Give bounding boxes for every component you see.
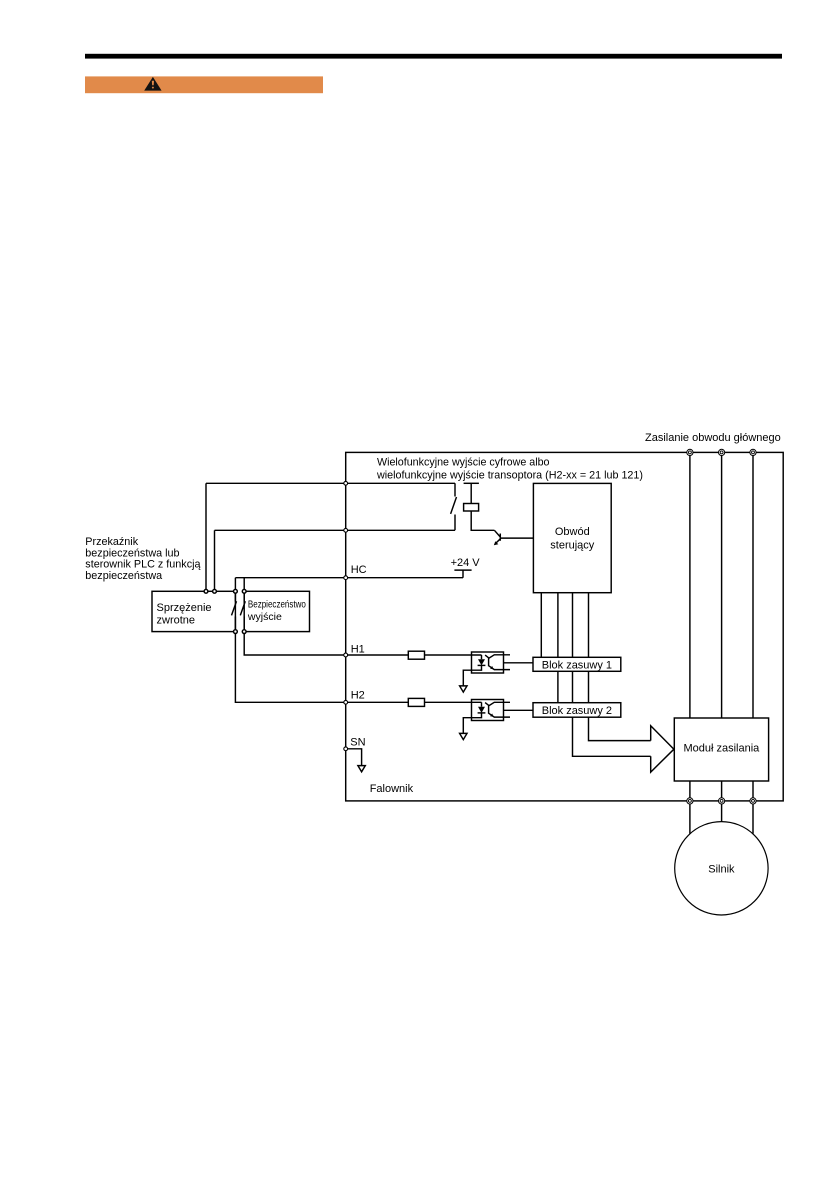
junction circle contact B top xyxy=(242,589,246,593)
feedback box (Sprzezenie zwrotne) xyxy=(152,591,235,631)
relay coil top bar xyxy=(464,482,479,484)
wire: R1 to optocoupler U1 xyxy=(424,654,482,656)
U2 emitter arrowhead xyxy=(490,714,493,717)
wire: contact 2 to H1 xyxy=(244,632,346,655)
terminal circle H2 xyxy=(344,700,348,704)
U1 LED anode lead xyxy=(481,655,483,659)
wire: feedback line 1 horizontal to terminal T1 xyxy=(206,482,455,484)
transistor Q1 xyxy=(494,530,500,543)
junction circle contact A bottom xyxy=(234,630,238,634)
U1 emitter arrowhead xyxy=(490,666,493,669)
header rule xyxy=(85,54,782,59)
power module box (Modul zasilania) xyxy=(674,718,768,781)
wire: safety contact feed stub B xyxy=(243,578,245,592)
terminal circle T1 xyxy=(344,481,348,750)
relay contact switch xyxy=(451,483,457,530)
svg-text:bezpieczeństwa: bezpieczeństwa xyxy=(85,570,162,582)
svg-text:Silnik: Silnik xyxy=(708,863,735,875)
svg-text:Sprzężenie: Sprzężenie xyxy=(157,602,212,614)
wire: HC to safety relay xyxy=(235,577,345,579)
output terminal W bottom xyxy=(750,798,756,804)
U1 LED cathode lead to ground xyxy=(463,665,481,686)
safety output box (Bezpieczenstwo wyjscie) xyxy=(244,591,309,631)
junction circle contact A top xyxy=(234,589,238,593)
U2 phototransistor xyxy=(485,702,510,717)
wire: HC to +24V xyxy=(346,577,463,579)
svg-text:SN: SN xyxy=(350,737,365,749)
terminal circle H1 xyxy=(344,653,348,657)
terminal circle T2 xyxy=(344,528,348,532)
inverter enclosure box (Falownik) xyxy=(346,452,784,801)
wire: U2 output to gate block 2 xyxy=(504,709,534,711)
relay coil lead bottom xyxy=(471,511,494,530)
wire: SN to ground xyxy=(346,749,362,766)
output terminal U bottom xyxy=(687,798,693,804)
svg-text:Moduł zasilania: Moduł zasilania xyxy=(683,743,760,755)
wire: H1 terminal to resistor R1 xyxy=(346,654,409,656)
input terminal R top xyxy=(687,449,756,804)
resistor R1 xyxy=(408,651,424,659)
wire: feedback line 2 horizontal to terminal T2 xyxy=(215,529,456,531)
svg-text:sterujący: sterujący xyxy=(550,540,595,552)
U2 LED cathode bar xyxy=(478,712,486,714)
label: Przekaznik bezpieczenstwa block xyxy=(85,536,200,582)
wire: feedback line 1 vertical xyxy=(205,483,207,591)
junction circle feedback 1 xyxy=(204,589,208,593)
svg-text:sterownik PLC z funkcją: sterownik PLC z funkcją xyxy=(85,559,200,571)
svg-text:Falownik: Falownik xyxy=(370,783,414,795)
hollow arrow head xyxy=(651,726,674,772)
resistor R2 xyxy=(408,698,424,706)
U2 LED cathode lead to ground xyxy=(463,713,481,734)
wire: gate block 2 to arrow lower xyxy=(573,717,651,756)
warning banner xyxy=(85,76,323,93)
+24V supply symbol xyxy=(454,570,471,578)
motor circle (Silnik) xyxy=(675,822,768,915)
safety contact 2 xyxy=(240,591,245,631)
svg-text:HC: HC xyxy=(351,564,367,576)
svg-text:H1: H1 xyxy=(351,643,365,655)
wire: R2 to optocoupler U2 xyxy=(424,701,482,703)
wire: safety contact feed stub A xyxy=(234,578,236,592)
U2 LED anode lead xyxy=(481,702,483,706)
svg-text:wyjście: wyjście xyxy=(247,611,282,623)
svg-text:Blok zasuwy 1: Blok zasuwy 1 xyxy=(542,659,612,671)
control circuit box (Obwod sterujacy) xyxy=(533,483,611,592)
wires between gate blocks xyxy=(558,671,589,702)
optocoupler U1 box xyxy=(472,652,504,673)
junction circle feedback 2 xyxy=(213,589,217,593)
svg-text:Bezpieczeństwo: Bezpieczeństwo xyxy=(248,599,306,611)
phase wires top xyxy=(690,452,753,718)
SN ground symbol xyxy=(358,766,365,772)
relay coil lead top xyxy=(470,483,472,503)
svg-text:wielofunkcyjne wyjście transop: wielofunkcyjne wyjście transoptora (H2-x… xyxy=(376,470,643,482)
safety contact 1 xyxy=(232,591,237,631)
U2 LED triangle xyxy=(478,707,485,713)
wire: H2 terminal to resistor R2 xyxy=(346,701,409,703)
wire: contact 1 to H2 xyxy=(235,632,345,703)
transistor Q1 emitter arrowhead xyxy=(494,541,499,545)
svg-text:+24 V: +24 V xyxy=(451,557,481,569)
junction circle contact B bottom xyxy=(242,630,246,634)
gate block 1 box xyxy=(533,657,621,671)
optocoupler U2 box xyxy=(472,700,504,721)
svg-text:Blok zasuwy 2: Blok zasuwy 2 xyxy=(542,705,612,717)
input terminal S top xyxy=(719,449,725,455)
svg-text:Obwód: Obwód xyxy=(555,526,590,538)
svg-text:H2: H2 xyxy=(351,690,365,702)
gate block 2 box xyxy=(533,703,621,718)
svg-text:Zasilanie obwodu głównego: Zasilanie obwodu głównego xyxy=(645,432,781,444)
U1 ground symbol xyxy=(460,686,467,692)
svg-text:Przekaźnik: Przekaźnik xyxy=(85,536,138,548)
U2 ground symbol xyxy=(460,733,467,739)
wire: Q1 to control circuit xyxy=(500,537,533,539)
U1 phototransistor xyxy=(485,655,510,670)
wire: U1 output to gate block 1 xyxy=(504,662,534,664)
input terminal T top xyxy=(750,449,756,455)
warning triangle icon xyxy=(144,77,161,91)
terminal circle HC xyxy=(344,576,348,580)
svg-text:Wielofunkcyjne wyjście cyfrowe: Wielofunkcyjne wyjście cyfrowe albo xyxy=(377,457,550,469)
wire: feedback line 2 vertical xyxy=(214,530,216,591)
motor feed wires xyxy=(690,801,753,834)
wire: gate block 2 to arrow upper xyxy=(589,717,651,740)
relay coil xyxy=(464,504,479,512)
phase wires bottom xyxy=(690,781,753,801)
svg-text:bezpieczeństwa lub: bezpieczeństwa lub xyxy=(85,547,179,559)
control circuit fan-out wires to gate block 1 xyxy=(541,593,588,658)
U1 LED triangle xyxy=(478,659,485,665)
output terminal V bottom xyxy=(719,798,725,804)
terminal circle SN xyxy=(344,747,348,751)
svg-text:zwrotne: zwrotne xyxy=(157,615,196,627)
U1 LED cathode bar xyxy=(478,664,486,666)
